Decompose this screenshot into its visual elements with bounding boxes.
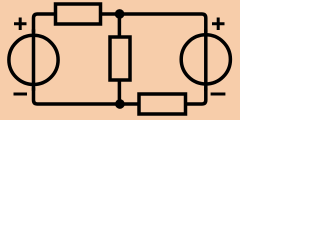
plus sign V1	[14, 18, 27, 31]
wire middle branch	[118, 14, 122, 104]
resistor R1	[56, 4, 101, 24]
plus sign V2	[212, 18, 225, 31]
resistor R2	[110, 37, 130, 80]
voltage source V1	[9, 35, 58, 84]
wire left source diameter	[32, 30, 36, 90]
node dot bottom	[115, 99, 125, 109]
voltage source V2	[181, 35, 230, 84]
wire top rail	[34, 14, 206, 32]
wire right source diameter	[204, 30, 208, 90]
minus sign V2	[211, 93, 226, 96]
resistor R3	[139, 94, 186, 114]
node dot top	[115, 9, 125, 19]
minus sign V1	[14, 93, 28, 96]
wire bottom rail	[34, 88, 206, 104]
